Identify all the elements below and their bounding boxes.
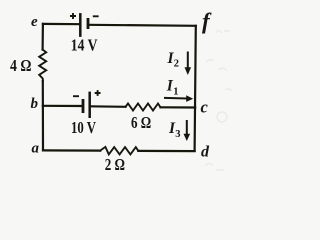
wire e to 14V battery (top-left horizontal) xyxy=(43,23,80,26)
svg-text:10 V: 10 V xyxy=(71,118,96,137)
battery B2 polarity signs xyxy=(73,90,101,96)
svg-text:a: a xyxy=(32,140,40,156)
wire 10V battery to 6-ohm (middle horizontal) xyxy=(90,105,126,108)
current arrow I1 (right) xyxy=(164,95,193,102)
resistor R1 4-ohm zigzag xyxy=(39,50,46,81)
resistor R2 6-ohm zigzag xyxy=(126,104,161,111)
svg-text:3: 3 xyxy=(175,129,180,140)
svg-text:14 V: 14 V xyxy=(71,36,98,55)
wire 2-ohm to a (bottom-left horizontal) xyxy=(43,149,100,151)
current arrow I2 (down) xyxy=(185,52,192,76)
wire 6-ohm to c (middle horizontal right) xyxy=(161,106,196,108)
wire b to 10V battery (middle horizontal left) xyxy=(43,105,82,107)
svg-text:2 Ω: 2 Ω xyxy=(105,155,125,174)
faint bleed-through marks (decorative) xyxy=(205,31,232,171)
svg-text:2: 2 xyxy=(174,58,179,69)
wire 4-ohm to e (left vertical upper) xyxy=(41,24,44,50)
svg-text:4 Ω: 4 Ω xyxy=(10,56,32,75)
svg-text:d: d xyxy=(201,144,210,161)
wire 14V battery to f (top-right horizontal) xyxy=(88,25,196,26)
battery B2 10V plates xyxy=(83,92,90,118)
svg-text:e: e xyxy=(31,14,38,30)
resistor R3 2-ohm zigzag xyxy=(100,147,138,155)
svg-text:1: 1 xyxy=(173,86,178,97)
svg-text:b: b xyxy=(31,96,39,112)
battery B1 14V plates xyxy=(80,13,88,37)
wire d to 2-ohm (bottom-right horizontal) xyxy=(138,150,194,152)
battery B1 polarity signs xyxy=(70,13,99,19)
svg-text:6 Ω: 6 Ω xyxy=(131,113,151,132)
current arrow I3 (down) xyxy=(184,120,191,141)
wire a to b (left vertical lower) xyxy=(42,81,44,150)
wire f to d (right vertical) xyxy=(195,26,196,151)
svg-text:c: c xyxy=(201,98,209,117)
